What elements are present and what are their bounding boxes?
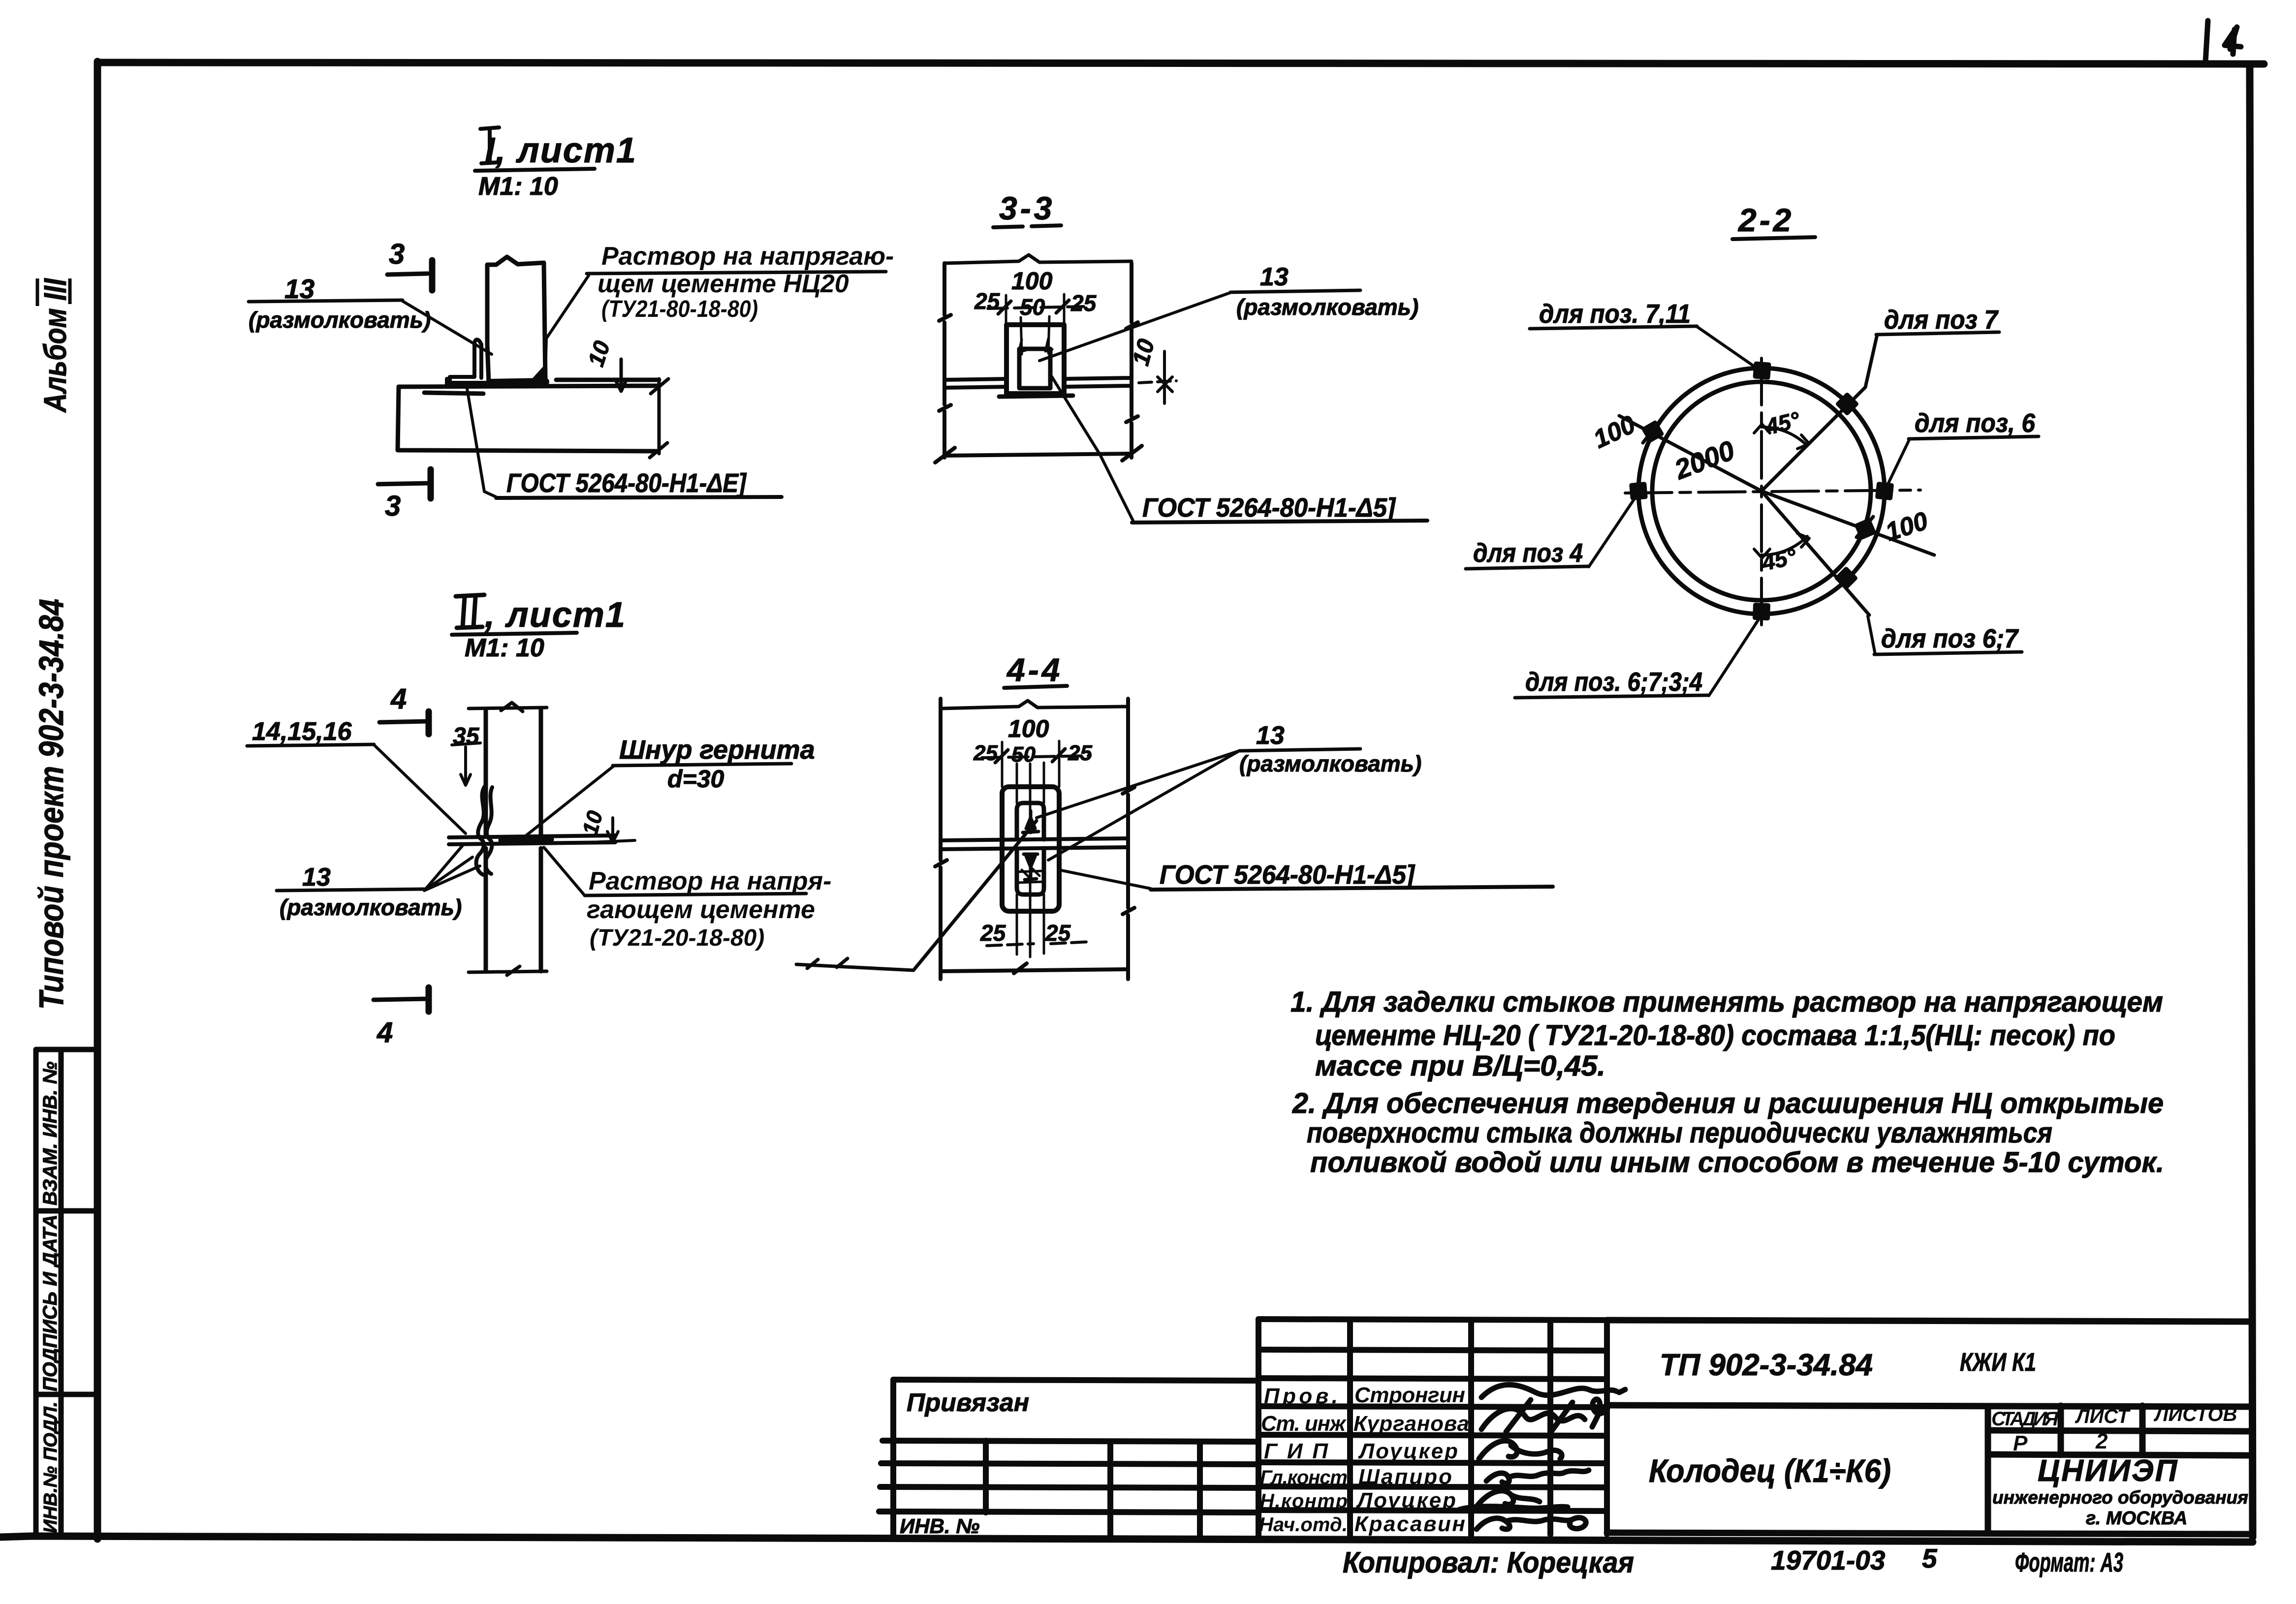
svg-text:поливкой водой или иным спос: поливкой водой или иным способом в течен… [1310,1146,2164,1178]
section 3-3 bottom edge line [935,446,1142,463]
detail II top dim line [469,703,547,711]
svg-text:Стронгин: Стронгин [1354,1383,1465,1407]
section 4-4 long leader from bottom left [796,821,1037,970]
signature squiggle Krasavin [1477,1518,1586,1529]
detail I section mark 3 bottom [378,469,431,498]
section 2-2 horizontal centerline [1625,490,1920,493]
detail II bottom dim line [469,966,547,975]
svg-text:Раствор на напря-: Раствор на напря- [589,867,831,895]
svg-text:М1: 10: М1: 10 [465,634,544,662]
svg-text:для поз 6;7: для поз 6;7 [1881,624,2019,653]
detail I title [475,127,637,201]
signature squiggle Loutsker N.kontr [1459,1491,1568,1510]
sheet number mark 4 (top right corner) [2205,21,2241,62]
section 2-2 lower 45 arc [1754,533,1809,558]
svg-text:Копировал: Корецкая: Копировал: Корецкая [1343,1546,1634,1579]
section 3-3 leader from 13 [1039,292,1231,361]
svg-text:гающем цементе: гающем цементе [587,895,815,924]
svg-text:Формат: А3: Формат: А3 [2015,1547,2123,1577]
svg-text:25: 25 [974,288,1001,314]
detail II wall [486,709,541,971]
svg-text:(ТУ21-20-18-80): (ТУ21-20-18-80) [590,925,764,951]
svg-text:(ТУ21-80-18-80): (ТУ21-80-18-80) [601,296,758,322]
section 2-2 joint ticks on ring [1632,364,1891,618]
svg-text:ПОДПИСЬ И ДАТА: ПОДПИСЬ И ДАТА [39,1214,61,1391]
svg-text:Р: Р [2013,1431,2028,1455]
svg-text:для поз, 6: для поз, 6 [1915,408,2036,438]
svg-text:(размолковать): (размолковать) [249,307,431,333]
svg-text:3-3: 3-3 [999,190,1055,226]
section 3-3 right dim line [1126,263,1138,458]
svg-text:Н.контр: Н.контр [1260,1490,1348,1512]
privyazan table [879,1380,1258,1537]
svg-text:Ст. инж: Ст. инж [1261,1412,1347,1436]
signature squiggle Loutsker GIP [1479,1441,1562,1459]
svg-text:25: 25 [973,741,998,765]
section 2-2 title [1732,202,1815,239]
svg-text:1. Для заделки стыков применя: 1. Для заделки стыков применять раствор … [1290,986,2163,1018]
detail I wall [487,257,545,382]
signature squiggle Kurganova [1481,1399,1608,1433]
svg-text:цементе НЦ-20 ( ТУ21-20-18-80): цементе НЦ-20 ( ТУ21-20-18-80) состава 1… [1315,1019,2115,1051]
svg-text:2-2: 2-2 [1737,202,1794,238]
section 2-2 line 45 down [1761,491,1869,615]
svg-text:Пров.: Пров. [1264,1384,1338,1408]
section 4-4 leader from GOST [1059,870,1151,889]
detail I leader to bracket [403,301,492,354]
section 4-4 leaders from 13 [1037,751,1239,860]
detail I mortar joint under wall [490,382,545,383]
signature squiggle Strongin [1481,1385,1625,1397]
svg-text:поверхности стыка должны пер: поверхности стыка должны периодически ув… [1307,1117,2052,1149]
svg-text:ГОСТ 5264-80-Н1-Δ5]: ГОСТ 5264-80-Н1-Δ5] [1160,860,1415,890]
svg-text:(размолковать): (размолковать) [1239,751,1421,776]
svg-text:Колодец (К1÷К6): Колодец (К1÷К6) [1649,1452,1891,1489]
detail II gasket cord [476,786,492,875]
detail II leader from 14,15,16 [374,745,466,833]
svg-text:2. Для обеспечения твердения: 2. Для обеспечения твердения и расширени… [1292,1087,2164,1119]
detail I leader from rastvor to wall [545,276,589,376]
section 3-3 dim 10 [1139,351,1176,403]
svg-text:Раствор на напрягаю-: Раствор на напрягаю- [601,242,894,271]
section 4-4 outer box [1002,787,1059,911]
detail II dim 10 at joint [591,818,635,842]
svg-text:50: 50 [1011,742,1036,767]
svg-text:Курганова: Курганова [1353,1412,1469,1436]
svg-text:Привязан: Привязан [907,1388,1029,1417]
detail II leader from rastvor [544,847,585,895]
detail I slab [398,380,659,451]
section 4-4 bottom dim line [941,963,1128,973]
svg-text:массе при В/Ц=0,45.: массе при В/Ц=0,45. [1315,1050,1605,1082]
section 2-2 upper 45 arc [1754,424,1809,449]
svg-text:Гл.конст: Гл.конст [1260,1467,1348,1488]
signature squiggle Shapiro [1486,1470,1589,1483]
section 2-2 diameter line 2000 [1619,416,1934,555]
section 3-3 title [993,190,1064,227]
svg-text:Типовой проект 902-3-34.84: Типовой проект 902-3-34.84 [32,599,70,1010]
svg-text:для поз 7: для поз 7 [1884,305,1999,335]
svg-text:для поз 4: для поз 4 [1473,538,1583,568]
svg-text:13: 13 [1256,721,1285,750]
detail I dim 10 arrow [615,359,627,391]
svg-text:3: 3 [385,490,401,522]
svg-text:4: 4 [377,1017,393,1049]
svg-text:инженерного оборудования: инженерного оборудования [1992,1487,2248,1508]
section 3-3 joint lines [944,378,1132,397]
svg-text:100: 100 [1008,715,1049,742]
svg-text:25: 25 [1068,741,1092,765]
detail I label rastvor [598,242,894,322]
svg-text:ГОСТ 5264-80-Н1-Δ5]: ГОСТ 5264-80-Н1-Δ5] [1142,493,1396,523]
detail II leader from shnur [524,766,614,837]
svg-text:ИНВ.№ ПОДЛ.: ИНВ.№ ПОДЛ. [40,1402,61,1533]
svg-text:ГИП: ГИП [1264,1439,1328,1463]
detail I section mark 3 top [387,260,432,290]
svg-text:для поз. 6;7;3;4: для поз. 6;7;3;4 [1525,667,1702,697]
svg-text:г. МОСКВА: г. МОСКВА [2086,1508,2187,1529]
section 4-4 inner box lower [1017,848,1044,895]
section 3-3 top dim line [944,255,1132,263]
svg-text:Красавин: Красавин [1354,1512,1465,1536]
svg-text:19701-03: 19701-03 [1771,1545,1885,1575]
section 2-2 ring outer circle [1638,368,1885,614]
section 4-4 joint lines [941,838,1128,849]
section 4-4 right dim line [1123,699,1134,979]
stadiya list listov header [1991,1404,2237,1455]
svg-text:ВЗАМ. ИНВ. №: ВЗАМ. ИНВ. № [39,1061,61,1205]
svg-text:I, лист1: I, лист1 [485,131,637,170]
svg-text:4-4: 4-4 [1006,651,1063,688]
svg-text:13: 13 [1260,263,1289,291]
svg-text:Нач.отд.: Нач.отд. [1259,1514,1348,1536]
svg-text:ИНВ. №: ИНВ. № [900,1514,979,1538]
section 3-3 recess inner box [1019,349,1050,388]
svg-text:25: 25 [980,920,1006,946]
detail II leaders from 13 [424,844,480,891]
svg-text:, лист1: , лист1 [484,595,626,635]
detail II label rastvor [587,867,831,951]
svg-text:Шнур гернита: Шнур гернита [619,735,815,765]
svg-text:25: 25 [1045,920,1071,946]
detail I slab thickness dimension [650,379,668,458]
svg-text:ЦНИИЭП: ЦНИИЭП [2038,1454,2178,1488]
section 4-4 extension lines [1002,741,1059,957]
svg-text:СТАДИЯ: СТАДИЯ [1991,1408,2059,1430]
svg-text:2: 2 [2095,1429,2108,1453]
svg-text:Альбом III: Альбом III [37,278,73,413]
svg-text:КЖИ К1: КЖИ К1 [1960,1348,2036,1377]
section 3-3 recess outer box [1006,325,1064,394]
detail II section mark 4 top [379,711,429,734]
detail II joint mortar fill [502,839,550,840]
svg-text:ЛИСТ: ЛИСТ [2075,1406,2131,1427]
svg-text:14,15,16: 14,15,16 [252,717,352,746]
signature table grid [1258,1319,1607,1536]
svg-text:М1: 10: М1: 10 [478,172,558,201]
detail I weld triangle [526,364,545,386]
detail II joint lines [449,835,615,844]
detail II section mark 4 bottom [374,987,429,1012]
section 3-3 extension lines [1006,294,1064,354]
section 4-4 inner box upper [1017,803,1044,839]
svg-text:ТП 902-3-34.84: ТП 902-3-34.84 [1660,1348,1873,1382]
svg-text:100: 100 [1011,267,1053,295]
section 4-4 title [1004,651,1067,688]
section 4-4 top dim line [941,701,1128,709]
section 4-4 left dim line [935,699,947,979]
section 3-3 left dim line [939,263,951,458]
detail I leader from GOST to slab [467,389,496,497]
svg-text:50: 50 [1020,294,1045,320]
svg-text:3: 3 [389,238,405,270]
detail II title [452,595,626,662]
section 3-3 leader from GOST [1051,376,1133,521]
svg-text:(размолковать): (размолковать) [280,895,462,920]
section 2-2 line 45 up [1761,335,1877,491]
signature table names [1259,1383,1469,1536]
svg-text:25: 25 [1070,290,1097,316]
left margin stamp table [36,1049,97,1537]
main title block grid [1607,1320,2250,1534]
svg-text:13: 13 [302,863,331,892]
svg-text:Лоуцкер: Лоуцкер [1358,1439,1458,1463]
svg-text:ЛИСТОВ: ЛИСТОВ [2153,1404,2237,1425]
svg-text:для поз. 7,11: для поз. 7,11 [1539,299,1691,329]
svg-text:4: 4 [390,683,407,715]
svg-text:Лоуцкер: Лоуцкер [1356,1488,1456,1512]
svg-text:5: 5 [1922,1543,1938,1573]
section 2-2 ring inner circle [1652,382,1871,600]
svg-text:ГОСТ 5264-80-Н1-ΔЕ]: ГОСТ 5264-80-Н1-ΔЕ] [506,468,747,498]
section 2-2 vertical centerline [1760,358,1763,626]
svg-text:(размолковать): (размолковать) [1236,294,1418,320]
section 4-4 anchor pin [1017,811,1044,883]
svg-text:d=30: d=30 [667,765,724,793]
detail I angle bracket [447,339,487,386]
